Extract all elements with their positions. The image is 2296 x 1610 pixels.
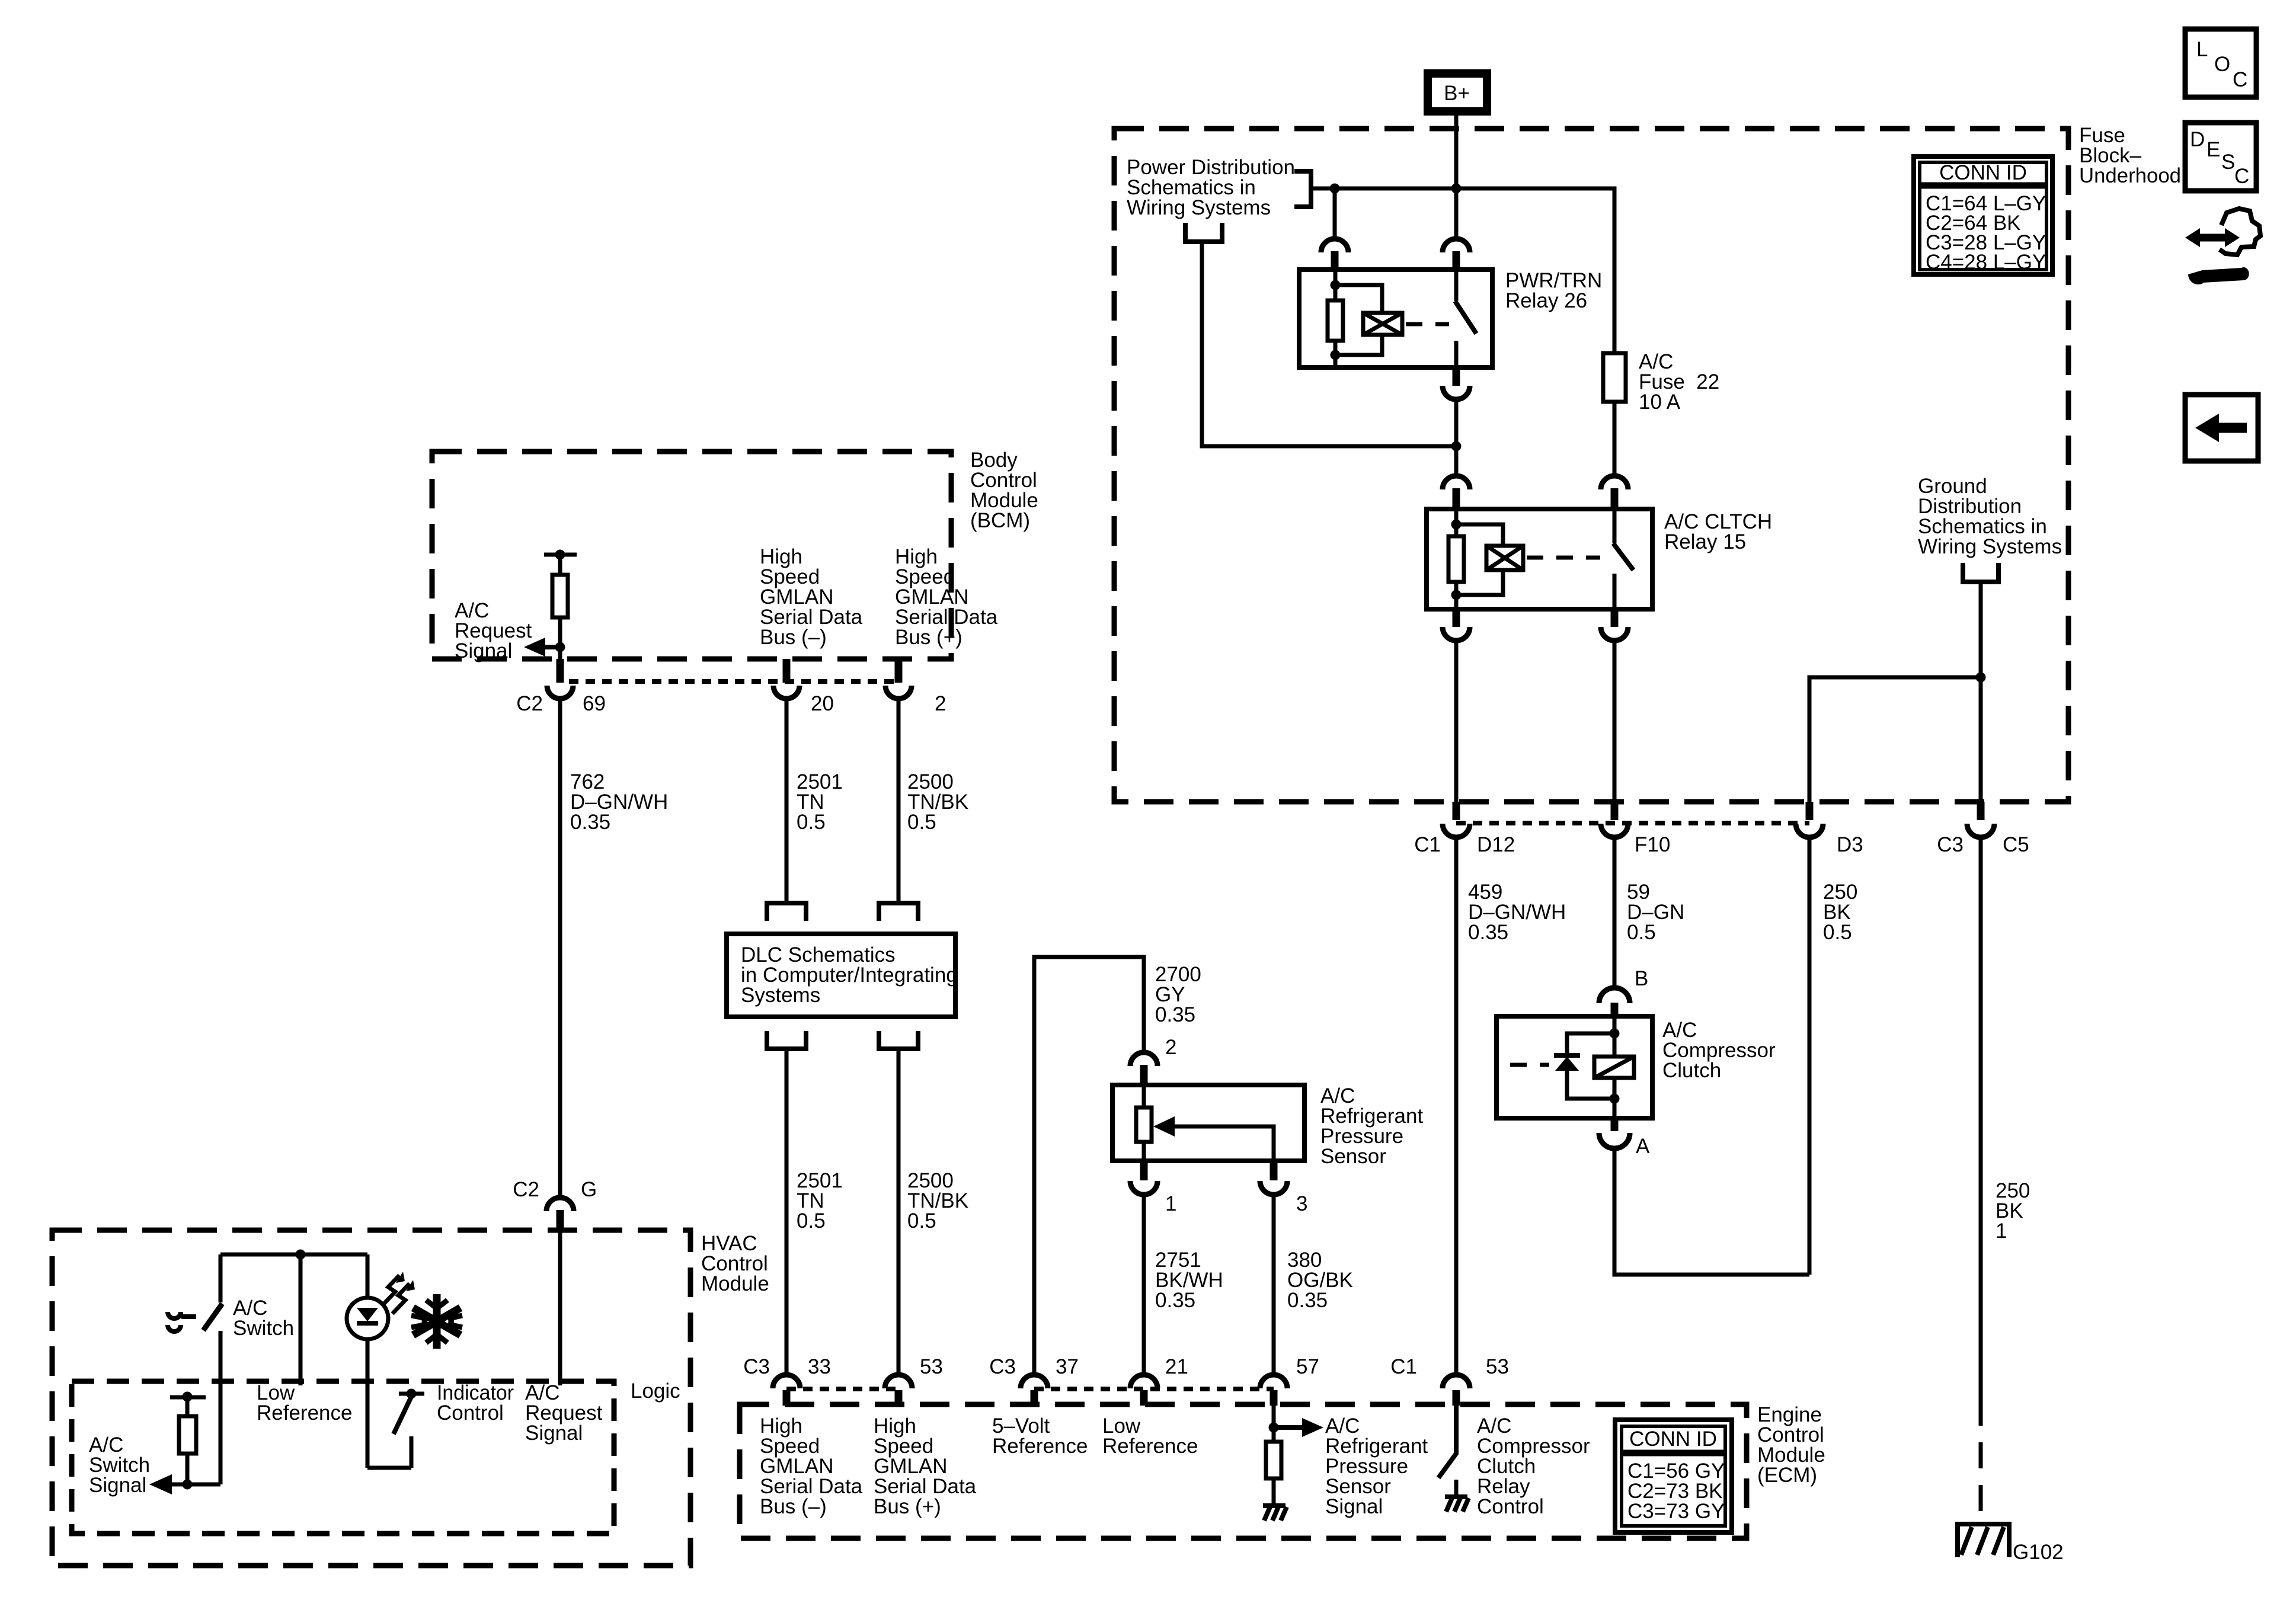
svg-text:37: 37 xyxy=(1056,1355,1079,1378)
svg-text:2: 2 xyxy=(935,692,946,715)
svg-text:D: D xyxy=(2190,128,2205,151)
wire 250 BK 0.5 xyxy=(1808,837,1812,1275)
clutch actuator dashed link xyxy=(1510,1063,1549,1067)
indicator control switch xyxy=(399,1392,424,1396)
ground ECM sensor signal xyxy=(1263,1506,1287,1521)
B+ power symbol xyxy=(1428,73,1487,111)
svg-text:CONN ID: CONN ID xyxy=(1939,161,2027,184)
wire PWR/TRN out to junction xyxy=(1454,402,1459,473)
svg-text:G: G xyxy=(581,1178,597,1201)
svg-text:C: C xyxy=(2233,68,2247,91)
svg-text:Underhood: Underhood xyxy=(2079,164,2181,187)
wire HVAC request from pin G xyxy=(558,1231,562,1385)
svg-text:0.5: 0.5 xyxy=(797,1209,826,1233)
clutch diode xyxy=(1567,1033,1614,1055)
wire power distribution branch xyxy=(1202,244,1456,446)
svg-text:C3: C3 xyxy=(989,1355,1016,1378)
connector row fuse block bottom dotted line xyxy=(1456,821,1809,825)
off-page bracket power distribution xyxy=(1294,171,1311,207)
wire CLTCH switch to F10 xyxy=(1613,643,1617,802)
svg-text:0.35: 0.35 xyxy=(1468,921,1508,944)
svg-text:Systems: Systems xyxy=(741,984,820,1007)
off-page bracket DLC bottom left xyxy=(767,1031,806,1049)
connector clutch pin B xyxy=(1599,988,1630,1003)
svg-text:57: 57 xyxy=(1296,1355,1319,1378)
connector ECM C1 53 xyxy=(1443,1375,1470,1388)
svg-text:Relay 26: Relay 26 xyxy=(1505,289,1587,312)
svg-text:Signal: Signal xyxy=(89,1474,146,1497)
svg-text:(BCM): (BCM) xyxy=(970,509,1030,532)
svg-text:Signal: Signal xyxy=(455,639,512,662)
svg-text:0.5: 0.5 xyxy=(1627,921,1656,944)
svg-text:C3=73 GY: C3=73 GY xyxy=(1627,1500,1725,1523)
wire to PWR/TRN switch pin xyxy=(1454,188,1459,237)
svg-text:Signal: Signal xyxy=(1325,1495,1383,1518)
HVAC top horizontal wire xyxy=(220,1253,367,1257)
wire DLC to ECM 33 xyxy=(785,1049,789,1372)
svg-text:F10: F10 xyxy=(1635,833,1670,856)
ground ECM relay control xyxy=(1445,1497,1469,1512)
svg-text:Reference: Reference xyxy=(257,1401,352,1425)
ground G102 xyxy=(1958,1524,2009,1557)
svg-text:53: 53 xyxy=(1486,1355,1509,1378)
node bus-B+ junction xyxy=(1451,184,1462,194)
svg-text:Control: Control xyxy=(1477,1495,1544,1518)
connector sensor pin 1 xyxy=(1140,1161,1148,1180)
connector ECM C3 33 xyxy=(773,1375,800,1388)
svg-text:D3: D3 xyxy=(1837,833,1863,856)
relay PWR/TRN Relay 26 box xyxy=(1299,270,1492,367)
connector row ECM dotted line right xyxy=(1034,1387,1274,1391)
HVAC control module dashed box xyxy=(52,1230,690,1566)
A/C switch xyxy=(219,1254,223,1302)
relay coil X-element CLTCH xyxy=(1456,524,1503,546)
svg-text:O: O xyxy=(2214,53,2230,76)
BCM pull-up resistor xyxy=(544,553,577,557)
LED light arrows xyxy=(382,1275,410,1314)
svg-text:69: 69 xyxy=(583,692,606,715)
connector ECM 57 xyxy=(1260,1375,1287,1388)
svg-text:0.5: 0.5 xyxy=(1823,921,1852,944)
svg-text:1: 1 xyxy=(1996,1219,2007,1243)
wire 250 BK 1 dashed part xyxy=(1979,1400,1983,1522)
svg-text:E: E xyxy=(2207,138,2220,161)
svg-text:21: 21 xyxy=(1165,1355,1188,1378)
svg-text:Bus (–): Bus (–) xyxy=(760,626,827,649)
sensor potentiometer xyxy=(1142,1085,1146,1108)
svg-text:33: 33 xyxy=(808,1355,831,1378)
wire BCM 2 to DLC xyxy=(897,700,901,902)
svg-text:0.5: 0.5 xyxy=(797,811,826,834)
relay coil branch CLTCH xyxy=(1454,509,1459,536)
body control module dashed box xyxy=(432,452,951,659)
relay actuator dashed link CLTCH xyxy=(1527,556,1600,560)
table CONN ID ECM xyxy=(1615,1420,1732,1532)
wire DLC to ECM 53 xyxy=(897,1049,901,1372)
table CONN ID fuse block xyxy=(1914,156,2052,274)
svg-text:Relay 15: Relay 15 xyxy=(1664,530,1746,553)
svg-text:Wiring Systems: Wiring Systems xyxy=(1127,196,1271,219)
svg-text:Bus (–): Bus (–) xyxy=(760,1495,827,1518)
connector PWR/TRN switch pin xyxy=(1443,239,1470,252)
arrow A/C switch signal xyxy=(170,1483,220,1487)
svg-text:(ECM): (ECM) xyxy=(1757,1464,1817,1487)
connector CLTCH coil pin xyxy=(1443,476,1470,489)
svg-text:C1: C1 xyxy=(1414,833,1441,856)
relay coil X-element PWR/TRN xyxy=(1335,285,1382,313)
wire to PWR/TRN coil pin xyxy=(1333,188,1337,237)
connector BCM pin 2 xyxy=(895,659,903,683)
connector C3 C5 xyxy=(1977,802,1985,820)
svg-text:53: 53 xyxy=(920,1355,943,1378)
connector ECM 21 xyxy=(1130,1375,1157,1388)
svg-text:0.5: 0.5 xyxy=(907,1209,936,1233)
svg-text:C: C xyxy=(2234,165,2249,188)
svg-text:Signal: Signal xyxy=(525,1422,583,1445)
connector PWR/TRN coil pin xyxy=(1321,239,1348,252)
connector F10 xyxy=(1611,802,1619,820)
arrow A/C request signal BCM xyxy=(543,645,560,649)
wire clutch return to D3 xyxy=(1614,1151,1809,1275)
svg-text:Bus (+): Bus (+) xyxy=(895,626,962,649)
svg-text:10 A: 10 A xyxy=(1639,391,1681,414)
connector PWR/TRN switch output xyxy=(1453,367,1460,386)
svg-text:Clutch: Clutch xyxy=(1662,1059,1721,1082)
off-page bracket ground distribution xyxy=(1963,563,1998,582)
svg-text:0.35: 0.35 xyxy=(1155,1003,1195,1026)
svg-text:A: A xyxy=(1636,1135,1650,1158)
svg-text:C5: C5 xyxy=(2003,833,2029,856)
connector CLTCH switch pin xyxy=(1601,476,1628,489)
node low reference junction xyxy=(296,1250,306,1260)
off-page bracket wiring systems feed xyxy=(1185,223,1222,242)
connector sensor pin 3 xyxy=(1270,1161,1278,1180)
svg-text:CONN ID: CONN ID xyxy=(1629,1427,1717,1451)
connector C2 69 xyxy=(557,659,564,683)
ECM relay control switch xyxy=(1438,1406,1456,1478)
relay switch PWR/TRN xyxy=(1454,270,1459,301)
svg-text:C3: C3 xyxy=(743,1355,770,1378)
connector row BCM dotted line xyxy=(569,679,898,684)
A/C compressor clutch box xyxy=(1496,1016,1652,1118)
svg-text:20: 20 xyxy=(811,692,834,715)
svg-text:Logic: Logic xyxy=(631,1379,680,1403)
wire low reference xyxy=(299,1254,303,1385)
svg-text:C2: C2 xyxy=(516,692,543,715)
off-page bracket DLC bottom right xyxy=(879,1031,918,1049)
LED indicator xyxy=(366,1254,370,1298)
snowflake icon xyxy=(413,1294,461,1349)
svg-text:Switch: Switch xyxy=(233,1317,294,1340)
fuse block underhood dashed box xyxy=(1114,129,2068,802)
clutch coil xyxy=(1613,1016,1617,1057)
icon back arrow box xyxy=(2185,395,2258,461)
engine control module dashed box xyxy=(740,1404,1747,1538)
relay coil branch PWR/TRN xyxy=(1334,270,1338,300)
connector CLTCH switch out xyxy=(1611,609,1619,627)
fuse A/C Fuse 22 xyxy=(1603,353,1626,402)
connector row ECM dotted line left xyxy=(786,1387,898,1391)
logic dashed box xyxy=(72,1381,614,1534)
connector BCM pin 20 xyxy=(783,659,791,683)
connector sensor pin 2 xyxy=(1130,1052,1157,1066)
wire BCM 20 to DLC xyxy=(785,700,789,902)
svg-text:D12: D12 xyxy=(1477,833,1515,856)
svg-text:0.35: 0.35 xyxy=(1287,1289,1328,1312)
svg-text:S: S xyxy=(2221,151,2235,174)
relay actuator dashed link PWR/TRN xyxy=(1406,322,1449,327)
connector ECM C3 37 xyxy=(1021,1375,1048,1388)
svg-text:Module: Module xyxy=(701,1272,769,1295)
svg-text:2: 2 xyxy=(1165,1036,1176,1059)
svg-text:B: B xyxy=(1635,967,1648,990)
icon DESC box xyxy=(2185,123,2256,191)
svg-text:1: 1 xyxy=(1165,1192,1176,1215)
connector ECM 53 xyxy=(885,1375,912,1388)
connector CLTCH coil out xyxy=(1453,609,1460,627)
svg-text:3: 3 xyxy=(1296,1192,1307,1215)
node power feed junction xyxy=(1451,441,1462,452)
wire 459 D-GN/WH xyxy=(1454,837,1459,1372)
svg-text:0.5: 0.5 xyxy=(907,811,936,834)
connector D3 xyxy=(1806,802,1814,820)
connector C2 G HVAC xyxy=(546,1198,574,1211)
connector clutch pin A xyxy=(1611,1118,1619,1131)
wire B+ feed xyxy=(1454,115,1459,188)
svg-text:C3: C3 xyxy=(1937,833,1964,856)
svg-text:L: L xyxy=(2196,38,2208,61)
svg-text:C4=28 L–GY: C4=28 L–GY xyxy=(1926,251,2046,274)
svg-text:Reference: Reference xyxy=(1102,1435,1198,1458)
svg-text:G102: G102 xyxy=(2013,1541,2064,1564)
wire ground distribution xyxy=(1979,582,1983,802)
wire 5-volt reference riser xyxy=(1034,957,1144,1372)
svg-text:Wiring Systems: Wiring Systems xyxy=(1918,535,2062,558)
off-page bracket DLC top right xyxy=(879,903,918,921)
svg-text:0.35: 0.35 xyxy=(570,811,610,834)
node bus-coil junction xyxy=(1330,184,1340,194)
wire sensor 3 to ECM 57 xyxy=(1272,1197,1276,1372)
svg-text:Reference: Reference xyxy=(992,1435,1088,1458)
DLC schematics box xyxy=(727,934,955,1017)
wire CLTCH coil to C1 D12 xyxy=(1454,643,1459,802)
icon LOC box xyxy=(2185,29,2256,97)
relay switch CLTCH xyxy=(1613,509,1617,543)
HVAC switch signal resistor xyxy=(170,1395,206,1400)
wire B+ bus xyxy=(1311,188,1614,353)
arrow sensor signal xyxy=(1274,1425,1304,1430)
svg-text:B+: B+ xyxy=(1444,82,1470,105)
wire ground branch to D3 xyxy=(1809,677,1981,802)
svg-text:Sensor: Sensor xyxy=(1320,1145,1386,1168)
svg-text:C1: C1 xyxy=(1390,1355,1417,1378)
A/C refrigerant pressure sensor box xyxy=(1112,1085,1304,1161)
ECM sensor signal pull resistor xyxy=(1272,1406,1276,1442)
relay A/C CLTCH Relay 15 box xyxy=(1427,509,1652,609)
svg-text:Control: Control xyxy=(437,1401,504,1425)
sensor wiper arrow xyxy=(1171,1126,1274,1161)
icon wrench with arrows xyxy=(2185,209,2260,284)
off-page bracket DLC top left xyxy=(767,903,806,921)
svg-text:Bus (+): Bus (+) xyxy=(874,1495,941,1518)
wire 250 BK 1 solid part xyxy=(1979,837,1983,1400)
wire 59 D-GN xyxy=(1613,837,1617,986)
wire sensor 1 to ECM 21 xyxy=(1142,1197,1146,1372)
svg-text:C2: C2 xyxy=(513,1178,539,1201)
wire 762 D-GN/WH xyxy=(558,700,562,1196)
svg-text:0.35: 0.35 xyxy=(1155,1289,1195,1312)
connector C1 D12 xyxy=(1453,802,1460,820)
